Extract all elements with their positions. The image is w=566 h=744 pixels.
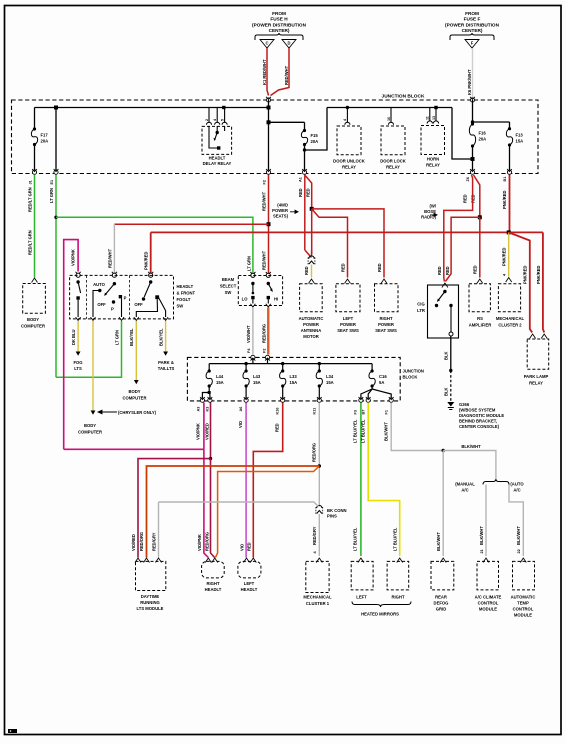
svg-text:MODULE: MODULE [514, 613, 532, 618]
component: RIGHT HEADLT [205, 558, 211, 563]
wire VIO/PNK to right headlt [204, 449, 208, 557]
svg-text:BODY: BODY [27, 317, 39, 322]
wire LT GRN up to headlt switch [56, 321, 122, 377]
svg-text:RIGHT: RIGHT [391, 595, 404, 600]
wire LT BLU/YEL (yel) to right heated mirror [368, 403, 400, 557]
component: CIG LTR (solid box) [428, 285, 459, 338]
svg-text:CIG: CIG [417, 302, 424, 307]
wire RED/GRY horizontal from park relay side [159, 502, 319, 507]
svg-text:21: 21 [480, 549, 484, 553]
component: MECHANICAL CLUSTER 1 [316, 558, 322, 563]
wire PNK/RED main run from fuse F13 [509, 175, 511, 233]
svg-text:A3: A3 [197, 407, 201, 412]
svg-text:LT BLU/YEL: LT BLU/YEL [393, 527, 398, 551]
junction [267, 106, 271, 110]
arrow to FOG LTS [76, 352, 81, 356]
svg-text:5: 5 [221, 119, 225, 121]
svg-text:BLK/YEL: BLK/YEL [129, 328, 134, 346]
relay: DOOR LOCK RELAY [390, 108, 392, 123]
svg-text:VIO: VIO [238, 420, 243, 428]
junction [471, 157, 475, 161]
component: REAR DEFOG GRID [440, 558, 446, 563]
wire BLK/WHT to rear defog grid [442, 451, 444, 557]
svg-text:SEAT SWS: SEAT SWS [337, 328, 359, 333]
switch: BEAM SELECT SW [250, 272, 255, 278]
relay: PARK LAMP RELAY [527, 339, 549, 369]
svg-text:FUSE H: FUSE H [270, 17, 288, 22]
svg-text:MECHANICAL: MECHANICAL [303, 595, 332, 600]
wire RED from JB2 to left headlt [253, 403, 282, 558]
svg-text:J1: J1 [29, 180, 33, 184]
svg-text:& FRONT: & FRONT [177, 291, 196, 296]
svg-text:MODULE: MODULE [479, 607, 497, 612]
svg-text:15A: 15A [326, 380, 334, 385]
svg-text:A6: A6 [239, 407, 243, 412]
svg-text:PINS: PINS [327, 514, 337, 519]
wire BLK from cig ltr to ground G266 [450, 336, 452, 371]
svg-text:CENTER): CENTER) [462, 28, 483, 33]
wire RED/WHT branch to headlt switch [114, 223, 268, 225]
svg-text:F2: F2 [262, 349, 266, 353]
wire BLK/WHT to a/c modules [443, 451, 496, 480]
svg-text:C: C [265, 41, 268, 46]
svg-text:BLOCK: BLOCK [403, 375, 418, 380]
svg-text:VIO/RED: VIO/RED [131, 534, 136, 551]
svg-text:E1: E1 [50, 180, 54, 185]
wire: relay bus [327, 107, 452, 109]
component: RS AMPLIFIER [477, 279, 483, 284]
JB2 entry pins [251, 355, 256, 360]
svg-text:4: 4 [213, 119, 217, 121]
svg-text:RED: RED [275, 423, 280, 432]
svg-text:HEADLT: HEADLT [241, 587, 258, 592]
svg-text:(4WD: (4WD [277, 203, 288, 208]
svg-text:FROM: FROM [465, 11, 479, 16]
arrow to BODY COMPUTER [91, 411, 96, 415]
svg-text:RED: RED [445, 266, 450, 275]
svg-text:(W/BOSE SYSTEM: (W/BOSE SYSTEM [459, 408, 496, 413]
svg-text:POWER: POWER [303, 322, 319, 327]
wire VIO/RED to daytime running lts module [138, 459, 211, 558]
wire RED to left power seat sws [312, 209, 348, 278]
svg-text:LT GRN: LT GRN [115, 330, 120, 345]
svg-text:HEADLT: HEADLT [209, 156, 226, 161]
svg-text:K1 RED/WHT: K1 RED/WHT [262, 59, 267, 85]
wire LT GRN from JB to switches [55, 175, 57, 378]
svg-text:22: 22 [517, 549, 521, 553]
svg-text:P: P [111, 307, 114, 312]
svg-text:RED: RED [306, 188, 311, 197]
fuse L44 15A [208, 364, 210, 371]
wire RED to RS amplifier [479, 217, 481, 277]
in-line connector BK CONN PINS [316, 505, 323, 514]
svg-text:OFF: OFF [134, 302, 143, 307]
wire RED/WHT from JB exit F2 [268, 175, 270, 277]
corner logo mark [8, 729, 17, 733]
svg-text:VIO/PNK: VIO/PNK [197, 534, 202, 551]
svg-text:COMPUTER: COMPUTER [123, 396, 147, 401]
fuse F16 20A [472, 100, 474, 124]
wire BLK/WHT from JB2 [391, 403, 443, 451]
svg-text:BK CONN: BK CONN [327, 508, 347, 513]
exit RED seats [302, 169, 307, 174]
svg-text:RED: RED [463, 194, 468, 203]
svg-text:FOG: FOG [73, 360, 82, 365]
svg-text:CENTER CONSOLE): CENTER CONSOLE) [459, 424, 500, 429]
svg-text:RED/LT GRN: RED/LT GRN [28, 187, 33, 212]
svg-text:15A: 15A [253, 380, 261, 385]
svg-text:AUTOMATIC: AUTOMATIC [299, 316, 324, 321]
wire: second green feed drop [55, 108, 57, 172]
wire RED/ORG branch to daytime running lts module [147, 466, 320, 558]
switch internals section 1 [76, 280, 79, 283]
wire VIO/PNK loop from switch pin 1 [64, 240, 78, 450]
entry connector K6 [470, 97, 475, 102]
svg-text:RED/WHT: RED/WHT [262, 191, 267, 211]
svg-text:RED/GRY: RED/GRY [152, 532, 157, 551]
svg-text:SW: SW [225, 290, 232, 295]
wire LT BLU/YEL (grn) to left heated mirror [360, 403, 362, 557]
relay: DOOR UNLOCK RELAY [346, 106, 349, 109]
svg-text:DAYTIME: DAYTIME [141, 594, 160, 599]
junction [267, 120, 271, 124]
svg-text:G266: G266 [459, 402, 470, 407]
svg-text:PARK LAMP: PARK LAMP [524, 374, 549, 379]
wire to body computer (chrysler) [92, 321, 94, 411]
svg-text:RED/WHT: RED/WHT [108, 248, 113, 268]
exit to body computer [32, 169, 37, 174]
wire VIO/RED to right headlt pin 2 [211, 459, 215, 558]
switch bottom pins [76, 317, 81, 320]
svg-text:Z6: Z6 [466, 177, 470, 181]
svg-text:MOTOR: MOTOR [303, 334, 319, 339]
svg-text:FUSE F: FUSE F [464, 17, 481, 22]
svg-text:13: 13 [432, 116, 436, 120]
svg-text:BLK/YEL: BLK/YEL [159, 328, 164, 346]
relay: HORN RELAY [429, 108, 431, 122]
component: RIGHT POWER SEAT SWS [375, 284, 399, 312]
svg-text:CONTROL: CONTROL [513, 607, 534, 612]
svg-text:F16: F16 [479, 131, 487, 136]
svg-text:PNK/RED: PNK/RED [502, 248, 507, 266]
svg-text:HI: HI [274, 297, 278, 302]
svg-text:(W/: (W/ [429, 204, 436, 209]
brace heated mirrors [352, 602, 411, 608]
wire RED/ORG to junction block 2 (two-tone) [267, 308, 269, 355]
wire BLK/WHT to automatic temp control module [509, 485, 523, 557]
wire: JB internal bus from F17 to K1 vertical [35, 107, 269, 109]
svg-text:CENTER): CENTER) [269, 28, 290, 33]
svg-text:BLK/WHT: BLK/WHT [436, 532, 441, 551]
svg-text:CONTROL: CONTROL [478, 601, 499, 606]
wire RED/WHT from connector C to junction block [267, 48, 269, 96]
junction block (lower) [187, 357, 400, 401]
svg-text:L44: L44 [216, 374, 224, 379]
svg-text:JUNCTION: JUNCTION [403, 369, 424, 374]
svg-text:LTS: LTS [74, 366, 82, 371]
svg-text:LEFT: LEFT [356, 595, 367, 600]
svg-text:VIO/PNK: VIO/PNK [71, 249, 76, 266]
svg-text:L43: L43 [253, 374, 261, 379]
svg-text:BLK/WHT: BLK/WHT [516, 526, 521, 545]
wire PNK/RED to park lamp relay pin 1 [509, 232, 533, 332]
cig ltr internals [443, 290, 446, 293]
svg-text:F15: F15 [311, 133, 319, 138]
svg-text:15A: 15A [290, 380, 298, 385]
svg-text:A/C: A/C [461, 488, 468, 493]
svg-text:L34: L34 [326, 374, 334, 379]
svg-text:RED: RED [298, 188, 303, 197]
wire BLK/YEL to body computer [135, 321, 137, 380]
svg-text:AMPLIFIER: AMPLIFIER [469, 323, 492, 328]
svg-text:K11: K11 [313, 408, 317, 415]
wire DK BLU to fog lts [77, 321, 79, 352]
note: CHRYSLER ONLY [98, 410, 117, 414]
svg-text:RED: RED [247, 542, 252, 551]
svg-text:(CHRYSLER ONLY): (CHRYSLER ONLY) [118, 410, 157, 415]
svg-text:RED/GRY: RED/GRY [312, 526, 317, 545]
junction [54, 106, 58, 110]
wires RED converge to antenna motor connector [305, 250, 312, 258]
svg-text:LT GRN: LT GRN [49, 188, 54, 203]
svg-text:POWER: POWER [340, 322, 356, 327]
exit PNK/RED [507, 169, 512, 174]
svg-text:CLUSTER 1: CLUSTER 1 [306, 601, 330, 606]
svg-text:RUNNING: RUNNING [140, 600, 160, 605]
wire RED/ORG (gray) from JB2 [318, 403, 320, 507]
svg-text:4: 4 [343, 119, 347, 121]
svg-text:BLK/WHT: BLK/WHT [384, 422, 389, 441]
svg-text:VIO/RED: VIO/RED [204, 423, 209, 440]
junction RED [478, 215, 482, 219]
svg-text:BLK/WHT: BLK/WHT [461, 444, 481, 449]
connector D (from Fuse H) [282, 40, 296, 49]
svg-text:HEATED MIRRORS: HEATED MIRRORS [361, 612, 399, 617]
svg-text:RED/ORG: RED/ORG [261, 324, 266, 343]
svg-text:A/C: A/C [513, 488, 520, 493]
svg-text:P: P [124, 296, 127, 301]
wire VIO/WHT to junction block 2 [252, 308, 254, 355]
svg-text:RED/WHT: RED/WHT [262, 250, 267, 270]
svg-text:SW: SW [177, 304, 184, 309]
entry connector K1 [266, 97, 271, 102]
svg-text:RS: RS [477, 316, 483, 321]
svg-text:A/C CLIMATE: A/C CLIMATE [475, 595, 502, 600]
svg-text:HORN: HORN [427, 157, 439, 162]
exit RED/WHT [266, 169, 271, 174]
svg-text:REAR: REAR [435, 595, 447, 600]
wire RED/LT GRN to body computer [34, 175, 36, 278]
svg-text:RELAY: RELAY [342, 165, 356, 170]
junction LT GRN [54, 216, 57, 219]
svg-text:LEFT: LEFT [343, 316, 354, 321]
svg-text:RED/ORG: RED/ORG [139, 532, 144, 551]
svg-text:15A: 15A [216, 380, 224, 385]
svg-text:GRID: GRID [436, 607, 446, 612]
svg-text:RED/ORG: RED/ORG [312, 443, 317, 462]
wire: K1 vertical inside JB [268, 100, 270, 171]
svg-text:2: 2 [205, 119, 209, 121]
svg-text:5A: 5A [379, 380, 384, 385]
component: DAYTIME RUNNING LTS MODULE [135, 558, 141, 563]
headlt delay relay pins 2/4/5 [208, 108, 210, 123]
svg-text:AUTO: AUTO [93, 282, 106, 287]
svg-text:SEAT SWS: SEAT SWS [375, 328, 397, 333]
wire to fuse F13 [473, 121, 510, 123]
junction RED/WHT [267, 222, 271, 226]
wires RED from JB exit to seats [304, 175, 306, 251]
svg-text:F13: F13 [516, 132, 524, 137]
component: AUTOMATIC TEMP CONTROL MODULE [520, 558, 526, 563]
svg-text:BODY: BODY [84, 423, 96, 428]
svg-text:RIGHT: RIGHT [206, 581, 219, 586]
fuse F15 20A [304, 122, 306, 130]
svg-text:(MANUAL: (MANUAL [455, 482, 475, 487]
junction PNK/RED [507, 230, 511, 234]
svg-text:PNK/RED: PNK/RED [144, 252, 149, 270]
svg-text:K6 PNK/WHT: K6 PNK/WHT [467, 69, 472, 95]
ground G266 [447, 402, 454, 407]
junction VIO/RED [209, 457, 212, 460]
svg-text:LTR: LTR [417, 308, 425, 313]
svg-text:VIO/PNK: VIO/PNK [196, 423, 201, 440]
svg-text:BLK: BLK [444, 388, 449, 396]
svg-text:D: D [287, 41, 290, 46]
svg-text:DOOR UNLOCK: DOOR UNLOCK [333, 159, 365, 164]
wire RED to cig lighter (second) [445, 217, 479, 281]
svg-text:LT BLU/YEL: LT BLU/YEL [353, 527, 358, 551]
svg-text:RIGHT: RIGHT [379, 316, 392, 321]
fuse C16 5A [371, 364, 373, 371]
svg-text:BEHIND BRACKET,: BEHIND BRACKET, [459, 419, 497, 424]
svg-text:RED: RED [437, 266, 442, 275]
svg-text:RED: RED [341, 263, 346, 272]
svg-text:POWER: POWER [272, 208, 288, 213]
svg-text:POWER: POWER [378, 322, 394, 327]
svg-text:15A: 15A [516, 138, 524, 143]
JB2 internal bus [252, 358, 254, 364]
in-line connector [308, 256, 315, 265]
wire PNK/RED to park lamp relay pin 2 [543, 232, 544, 332]
svg-text:BODY: BODY [128, 389, 140, 394]
svg-text:LT BLU/YEL: LT BLU/YEL [360, 419, 365, 443]
switch internals section 3 [149, 280, 152, 283]
svg-text:PARK &: PARK & [158, 360, 174, 365]
svg-text:F17: F17 [41, 132, 49, 137]
svg-text:F2: F2 [263, 180, 267, 184]
svg-text:HEADLT: HEADLT [177, 284, 194, 289]
junction RED [310, 207, 314, 211]
svg-text:RED/WHT: RED/WHT [284, 65, 289, 85]
wire RED/GRY to mechanical cluster 1 [318, 514, 320, 556]
svg-text:FROM: FROM [272, 11, 286, 16]
svg-text:OFF: OFF [97, 302, 106, 307]
wire VIO/RED from JB2 [210, 403, 212, 459]
svg-text:L33: L33 [290, 374, 298, 379]
svg-text:B1: B1 [503, 177, 507, 182]
fuse L33 15A [282, 364, 284, 371]
connector F (from Fuse F) [465, 40, 479, 49]
svg-text:DIAGNOSTIC MODULE: DIAGNOSTIC MODULE [459, 413, 504, 418]
svg-text:LEFT: LEFT [244, 581, 255, 586]
svg-text:B7: B7 [361, 410, 365, 415]
svg-text:SEATS): SEATS) [273, 214, 289, 219]
junction [318, 464, 321, 467]
wire: branch to fuse F15 [269, 121, 305, 123]
fuse F13 15A [509, 122, 511, 129]
svg-text:TAILLTS: TAILLTS [158, 366, 175, 371]
wire RED/ORG branch to right headlt [215, 466, 319, 558]
arrow to BODY COMPUTER [134, 380, 139, 384]
fuse L43 15A [245, 364, 247, 371]
svg-text:16: 16 [387, 117, 391, 121]
svg-text:MECHANICAL: MECHANICAL [496, 316, 525, 321]
component: LEFT heated mirror [358, 558, 364, 563]
svg-text:(AUTO: (AUTO [510, 482, 524, 487]
svg-text:ANTENNA: ANTENNA [301, 328, 321, 333]
svg-text:RED/ORG: RED/ORG [204, 532, 209, 551]
svg-text:SELECT: SELECT [220, 284, 237, 289]
svg-text:JUNCTION BLOCK: JUNCTION BLOCK [382, 94, 425, 100]
svg-text:COMPUTER: COMPUTER [21, 324, 45, 329]
svg-text:11: 11 [426, 116, 430, 120]
JB2 fuse output jogs [202, 386, 209, 399]
svg-text:CLUSTER 2: CLUSTER 2 [498, 323, 522, 328]
svg-text:TEMP: TEMP [517, 601, 529, 606]
svg-text:K3: K3 [205, 407, 209, 412]
component: RIGHT heated mirror [397, 558, 403, 563]
svg-text:RELAY: RELAY [529, 381, 543, 386]
brace over connectors C and D [255, 33, 303, 40]
svg-text:(POWER DISTRIBUTION: (POWER DISTRIBUTION [252, 22, 307, 27]
svg-text:PNK/RED: PNK/RED [536, 266, 541, 284]
wire BLK/YEL to park & taillts [165, 321, 167, 352]
wire PNK/RED to mechanical cluster 2 [508, 232, 510, 276]
svg-text:PNK/RED: PNK/RED [523, 266, 528, 284]
relay: HEADLT DELAY RELAY [202, 126, 232, 154]
junction BLK/WHT [442, 449, 445, 452]
brace manual/auto a/c [483, 479, 509, 485]
svg-text:BEAM: BEAM [222, 277, 235, 282]
switch: HEADLT & FRONT FOGLT SW [76, 272, 81, 278]
fuse F17 20A [34, 108, 36, 130]
arrow to PARK & TAILLTS [163, 352, 168, 356]
svg-text:(POWER DISTRIBUTION: (POWER DISTRIBUTION [445, 22, 500, 27]
svg-text:DK BLU: DK BLU [71, 329, 76, 345]
svg-text:DELAY RELAY: DELAY RELAY [203, 161, 232, 166]
component: LEFT POWER SEAT SWS [336, 284, 360, 312]
svg-text:F1: F1 [385, 410, 389, 414]
svg-text:RED: RED [377, 263, 382, 272]
svg-text:BLK: BLK [444, 352, 449, 360]
svg-text:COMPUTER: COMPUTER [78, 430, 102, 435]
brace over connector F [450, 33, 494, 40]
wire VIO/PNK from JB2 [203, 403, 205, 450]
svg-text:RELAY: RELAY [386, 165, 400, 170]
svg-text:K16: K16 [276, 408, 280, 415]
svg-text:LT BLU/YEL: LT BLU/YEL [353, 419, 358, 443]
exit LT GRN [54, 169, 59, 174]
wire RED/WHT from connector D [271, 48, 290, 96]
svg-text:20A: 20A [311, 139, 319, 144]
connector C (from Fuse H) [260, 40, 274, 49]
svg-text:VIO/WHT: VIO/WHT [246, 325, 251, 343]
svg-text:RED: RED [473, 265, 478, 274]
svg-text:C16: C16 [379, 374, 387, 379]
svg-text:A1: A1 [299, 177, 303, 182]
svg-text:RED: RED [304, 266, 309, 275]
junction block (upper) [12, 100, 539, 174]
